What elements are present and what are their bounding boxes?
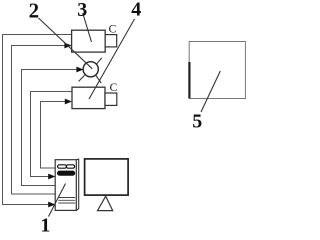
arrowhead w2 into camera 3 bbox=[64, 43, 71, 49]
box 5 (display/target) bbox=[189, 42, 245, 99]
connector square C of camera 3 bbox=[105, 35, 117, 47]
wire w5: computer 1 to camera 4 bbox=[41, 102, 66, 169]
svg-text:C: C bbox=[110, 82, 118, 94]
tower vent line 1 bbox=[58, 197, 75, 199]
svg-text:C: C bbox=[109, 23, 117, 35]
leader line of label 1 into computer tower bbox=[49, 184, 66, 217]
computer tower front (item 1) bbox=[55, 160, 76, 211]
camera box 4 bbox=[72, 87, 105, 108]
leader line of label 3 into camera 3 bbox=[83, 13, 92, 42]
wire w2: computer 1 to camera 3 bbox=[12, 46, 65, 195]
leader line of label 4 into camera 4 bbox=[89, 19, 135, 99]
wire w4: camera 4 output to computer 1 bbox=[31, 92, 73, 177]
monitor screen bbox=[85, 159, 129, 195]
tower vent line 3 bbox=[58, 202, 75, 204]
lamp tick SW bbox=[79, 75, 85, 81]
computer tower side panel bbox=[76, 159, 78, 210]
svg-text:1: 1 bbox=[40, 214, 50, 232]
lamp tick NE bbox=[97, 58, 102, 64]
leader line of label 5 into box 5 bbox=[201, 71, 220, 112]
tower drive bay slot left bbox=[58, 165, 67, 168]
arrowhead w5 into camera 4 bbox=[65, 99, 72, 105]
svg-text:5: 5 bbox=[192, 111, 202, 133]
tower drive bay slot right bbox=[66, 165, 74, 168]
arrowhead w1 into computer bbox=[48, 202, 55, 208]
svg-text:4: 4 bbox=[131, 0, 141, 21]
wire w3: computer 1 to lamp 2 bbox=[22, 70, 78, 186]
arrowhead w3 into lamp 2 bbox=[76, 67, 83, 73]
lamp circle 2 bbox=[83, 62, 98, 77]
tower dark drive slot bbox=[57, 171, 74, 175]
wire w1: camera 3 output to computer 1 bbox=[3, 35, 72, 205]
connector square C of camera 4 bbox=[105, 93, 117, 105]
box 5 thick lower-left edge bbox=[188, 62, 190, 98]
camera box 3 bbox=[72, 30, 106, 52]
leader line of label 2 into lamp bbox=[39, 18, 93, 69]
svg-text:2: 2 bbox=[29, 0, 40, 23]
lamp tick SE bbox=[96, 76, 101, 84]
tower vent line 2 bbox=[58, 199, 75, 201]
arrowhead w4 into computer bbox=[48, 174, 55, 180]
monitor stand triangle bbox=[98, 196, 113, 210]
svg-text:3: 3 bbox=[77, 0, 87, 21]
